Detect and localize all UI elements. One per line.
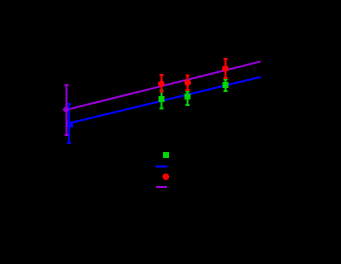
blue square marker xyxy=(67,121,73,127)
green square marker 2 xyxy=(185,94,191,100)
green square marker 3 xyxy=(222,82,228,88)
legend green square xyxy=(163,152,169,158)
red circle marker 2 xyxy=(184,79,191,86)
purple point error bar xyxy=(64,85,68,135)
legend blue line xyxy=(156,166,168,168)
magenta fit line xyxy=(66,62,261,110)
purple diamond marker xyxy=(62,106,70,114)
red circle marker 3 xyxy=(222,65,229,72)
red error bar 3 xyxy=(223,59,227,78)
blue fit line xyxy=(69,77,261,123)
green square marker 1 xyxy=(158,96,164,102)
legend red circle xyxy=(163,173,170,180)
green error bar 2 xyxy=(186,92,190,106)
green error bar 3 xyxy=(223,80,227,92)
red error bar 2 xyxy=(186,76,190,90)
red circle marker 1 xyxy=(158,81,165,88)
red error bar 1 xyxy=(159,75,163,92)
blue point error bar xyxy=(67,104,71,143)
legend purple line xyxy=(156,186,167,188)
green error bar 1 xyxy=(159,91,163,109)
